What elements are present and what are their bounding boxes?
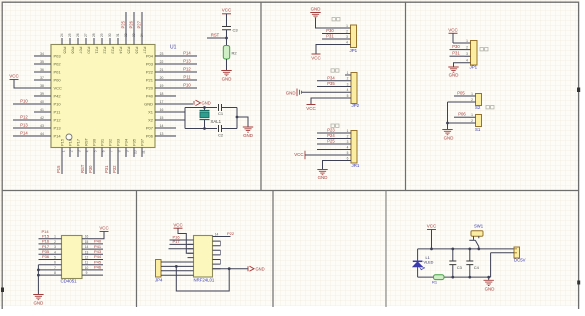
svg-text:P24: P24 [119,47,124,55]
svg-text:P14: P14 [20,131,28,136]
svg-text:L1: L1 [426,256,430,260]
svg-text:C1: C1 [218,111,224,116]
svg-text:JP1: JP1 [470,65,478,70]
svg-text:17: 17 [160,100,164,104]
svg-text:15: 15 [160,116,164,120]
svg-text:44: 44 [40,132,44,136]
svg-text:20: 20 [160,76,164,80]
svg-text:32: 32 [124,33,128,37]
svg-text:P31: P31 [452,51,460,56]
wire S2 pin2 [448,101,470,103]
ground JR1 [317,170,327,175]
power GND arrow right of U1 [194,100,201,105]
border tick left [1,288,4,293]
svg-text:P22: P22 [103,47,108,55]
svg-text:34: 34 [40,52,44,56]
wire net P13 left [13,127,34,129]
svg-text:2: 2 [347,77,349,81]
wire JP2 pin5 to VCC [311,98,345,105]
wire CD4051 gnd vertical [37,265,39,295]
wire JP1 pin4 to VCC [316,45,345,55]
svg-text:41: 41 [40,108,44,112]
ground crystal [243,127,253,132]
svg-text:VCC: VCC [99,226,108,231]
svg-text:P33: P33 [116,138,121,146]
wire R2 to ground [226,59,228,71]
svg-text:GND: GND [449,73,459,78]
svg-text:P11: P11 [54,110,62,115]
svg-text:P22: P22 [146,70,154,75]
wire net P14 left [13,135,34,137]
svg-text:P12: P12 [183,67,191,72]
svg-text:11: 11 [85,261,89,265]
svg-text:GND: GND [444,136,454,141]
junction crystal top [203,106,206,109]
divider bottom vertical 2 [272,191,274,308]
wire GND to JP2 pin4 [302,91,345,93]
svg-text:S1: S1 [475,127,481,132]
svg-text:P32: P32 [108,138,113,146]
svg-text:6: 6 [54,261,56,265]
wire net P25 JR1 [317,143,345,145]
connector S1 button [476,115,482,127]
wire after C1 [222,107,238,109]
svg-text:P30: P30 [326,28,334,33]
svg-text:35: 35 [40,60,44,64]
wire net P31 JP3 [450,55,465,57]
svg-text:37: 37 [40,76,44,80]
junction crystal bottom [203,127,206,130]
JP3 title text [480,48,483,51]
U1 bottom long wires [62,148,118,175]
capacitor C3 reset [222,27,231,30]
wire VCC to JP3 pin1 [452,33,454,43]
svg-text:P11: P11 [183,75,191,80]
svg-text:25: 25 [68,33,72,37]
svg-text:P40: P40 [146,94,154,99]
junction CD4051 pin8 [37,274,40,277]
svg-text:11: 11 [141,150,145,154]
wire crystal top rail [185,107,217,109]
border tick right lower [577,281,580,285]
wire X2 to crystal [176,119,185,121]
svg-text:2: 2 [471,98,473,102]
diode D1 LED [413,260,423,262]
svg-text:GND: GND [311,7,321,12]
CD4051 right pins [82,239,103,275]
svg-text:R2: R2 [232,51,238,56]
svg-text:P32: P32 [112,165,117,173]
divider top vertical 1 [260,2,262,190]
op-amp U3 NRF24L01 body [194,236,213,278]
svg-text:GND: GND [34,301,44,306]
svg-text:NRF24L01: NRF24L01 [194,278,215,283]
wire led branch bottom [417,267,419,278]
svg-text:2: 2 [69,150,73,152]
wire net P06 [454,116,470,118]
resistor R2 [223,46,229,60]
wire C3 to R2 [226,30,228,46]
wire net P12 right [176,71,197,73]
svg-text:2: 2 [466,46,468,50]
wire jack pin2 [491,253,514,277]
svg-text:2: 2 [471,119,473,123]
wire net P13 right [176,63,197,65]
U1 top pins [62,38,118,45]
CD4051 left pins [39,239,62,275]
svg-text:P35: P35 [132,138,137,146]
svg-text:3: 3 [347,82,349,86]
wire net P30 JP1 [322,33,345,35]
wire net P05 [454,95,470,97]
svg-text:33: 33 [132,33,136,37]
connector JP3 [471,41,478,66]
svg-text:P42: P42 [54,94,62,99]
svg-text:P14: P14 [183,51,191,56]
power VCC JP2 [307,104,316,106]
svg-text:C4: C4 [474,265,480,270]
wire GND pin16 [176,103,193,105]
svg-text:5: 5 [347,151,349,155]
svg-text:GND: GND [286,90,296,95]
wire net P12 left [13,119,34,121]
JR1 pins [345,133,351,161]
JP1 title text [332,18,335,21]
svg-text:VCC: VCC [9,74,19,79]
NRF right pins [213,241,221,269]
svg-text:P30: P30 [452,44,460,49]
svg-text:4: 4 [54,250,56,254]
svg-text:DC5V: DC5V [514,257,526,262]
svg-text:GND: GND [222,77,232,82]
svg-text:1: 1 [471,92,473,96]
wire VCC to C3 [226,14,228,27]
connector S2 button [476,94,482,106]
svg-text:P05: P05 [457,90,465,95]
svg-text:P20: P20 [87,47,92,55]
svg-text:C3: C3 [457,265,463,270]
svg-text:43: 43 [40,124,44,128]
svg-text:10: 10 [133,150,137,154]
wire net P23 JR1 [317,132,345,134]
wire net P10 right [176,87,197,89]
svg-text:2: 2 [347,134,349,138]
svg-text:JP1: JP1 [350,48,358,53]
svg-text:P25: P25 [121,20,126,28]
svg-text:P27: P27 [137,20,142,28]
svg-text:P12: P12 [20,115,28,120]
junction buttons gnd [446,122,449,125]
svg-text:JP4: JP4 [155,278,163,283]
wire gnd to JP1 pin1 [316,18,345,28]
junction RST [225,37,228,40]
divider bottom vertical 3 [385,191,387,308]
wire bottom rail [418,276,491,278]
svg-text:P25: P25 [327,139,335,144]
svg-text:40: 40 [40,100,44,104]
svg-text:3: 3 [54,245,56,249]
svg-text:P16: P16 [68,138,73,146]
S2 pins [470,96,476,102]
wire S1 pin2 [448,122,470,124]
NRF right tie bars [220,241,222,264]
svg-text:P03: P03 [54,54,62,59]
svg-text:R1: R1 [432,280,438,285]
svg-text:SW1: SW1 [474,223,484,228]
svg-text:16: 16 [85,235,89,239]
svg-text:P22: P22 [227,231,235,236]
svg-text:14: 14 [85,245,89,249]
capacitor C4 power [469,249,471,277]
wire net P34 JP2 [317,80,345,82]
svg-text:C2: C2 [218,133,224,138]
svg-text:GND: GND [202,101,211,106]
svg-text:1: 1 [61,150,65,152]
wire RST stub [207,37,227,39]
divider top vertical 2 [405,2,407,190]
svg-text:P26: P26 [135,47,140,55]
svg-text:13: 13 [160,132,164,136]
svg-text:P15: P15 [60,138,65,146]
svg-text:P31: P31 [100,138,105,146]
wire VCC to pin 38 [14,80,34,89]
wire net P31 JP1 [322,38,345,40]
connector JP1 [351,25,357,48]
svg-text:VCC: VCC [173,222,182,227]
svg-text:VCC: VCC [448,27,458,32]
svg-text:P17: P17 [172,239,180,244]
svg-text:P07: P07 [79,47,84,55]
wire VCC drop [431,230,433,249]
wire net P14 right [176,55,197,57]
wire bottom loop [176,266,229,291]
JP2 pins [345,75,351,98]
svg-text:VCC: VCC [427,224,437,229]
JP1 pins [345,28,351,45]
svg-text:14: 14 [160,124,164,128]
connector JR1 [351,131,357,164]
svg-text:36: 36 [40,68,44,72]
svg-text:P37: P37 [140,138,145,146]
svg-text:8: 8 [54,271,56,275]
svg-text:30: 30 [108,33,112,37]
junction JP4 wire [175,265,178,268]
svg-text:CD4051: CD4051 [61,279,78,284]
wire net P24 JR1 [317,138,345,140]
svg-text:P05: P05 [63,47,68,55]
svg-text:5: 5 [347,94,349,98]
wire net P35 JP2 [317,86,345,88]
svg-text:P10: P10 [54,102,62,107]
svg-text:4: 4 [346,40,348,44]
capacitor C3 power [452,249,454,277]
svg-text:P30: P30 [88,165,93,173]
svg-text:1: 1 [347,71,349,75]
junction crystal gnd tap [236,116,239,119]
svg-text:GND: GND [243,133,253,138]
wire JP3 pin1 [453,42,465,44]
power GND arrow NRF [248,266,254,271]
svg-text:P14: P14 [41,229,49,234]
svg-text:34: 34 [140,33,144,37]
U1 left pins [34,56,51,136]
ground power section [488,277,490,280]
svg-text:1: 1 [346,24,348,28]
svg-text:P12: P12 [54,118,62,123]
op-amp U2 CD4051 body [62,236,83,279]
svg-text:31: 31 [116,33,120,37]
svg-text:P17: P17 [76,138,81,146]
svg-text:5: 5 [93,150,97,152]
svg-text:21: 21 [160,68,164,72]
wire net P11 right [176,79,197,81]
svg-text:P31: P31 [104,165,109,173]
svg-text:VLED: VLED [424,261,434,265]
svg-text:3: 3 [347,140,349,144]
svg-text:P34: P34 [327,75,335,80]
svg-text:P35: P35 [327,81,335,86]
svg-text:C3: C3 [233,28,239,33]
ground buttons [442,130,452,135]
connector JP4 [156,260,162,278]
U1 bottom pins [70,148,142,158]
svg-text:22: 22 [160,60,164,64]
svg-text:6: 6 [347,156,349,160]
wire JR1 pin4 [317,149,345,151]
svg-text:23: 23 [160,52,164,56]
svg-text:P04: P04 [146,54,154,59]
svg-text:26: 26 [76,33,80,37]
NRF24L01 left pins [188,240,194,258]
wire NRF pin8 to GND [213,268,249,270]
wire crystal to ground [237,117,248,127]
power VCC JP1 [312,53,321,55]
svg-text:19: 19 [160,84,164,88]
svg-text:GND: GND [256,266,265,271]
svg-text:RST: RST [211,32,220,37]
wire top rail [418,248,514,250]
junction CD4051 pin7 [37,269,40,272]
JP3 pins [465,43,471,63]
svg-text:P07: P07 [146,126,154,131]
wire VCC to NRF [178,228,194,253]
crystal XAL1 [204,108,206,129]
svg-text:P13: P13 [183,59,191,64]
U1 pin-1 circle [66,134,72,140]
svg-text:P06: P06 [146,134,154,139]
ground reset [221,71,231,76]
svg-text:P21: P21 [146,78,154,83]
svg-text:U1: U1 [170,44,177,50]
junction rail dots [430,248,433,251]
svg-text:P24: P24 [327,133,335,138]
svg-text:16: 16 [160,108,164,112]
svg-text:P15: P15 [56,165,61,173]
svg-text:P06: P06 [458,112,466,117]
capacitor C2 [219,125,222,132]
svg-text:P25: P25 [127,47,132,55]
svg-text:10: 10 [85,266,89,270]
op-amp U1 microcontroller body [51,45,155,148]
U1 top long wires P25 P26 P27 [126,12,142,45]
svg-text:4: 4 [347,88,349,92]
svg-text:GND: GND [485,287,495,292]
svg-text:JR1: JR1 [352,163,360,168]
svg-text:6: 6 [101,150,105,152]
svg-text:P36: P36 [42,254,50,259]
svg-text:P23: P23 [327,128,335,133]
svg-text:3: 3 [346,35,348,39]
svg-text:5: 5 [54,256,56,260]
svg-text:VCC: VCC [294,152,303,157]
wire crystal bottom rail [185,128,217,130]
svg-text:P10: P10 [20,99,28,104]
svg-text:9: 9 [86,271,88,275]
svg-text:XAL1: XAL1 [211,119,222,124]
wire VCC to pin16 [103,232,104,239]
svg-text:4: 4 [466,59,468,63]
svg-text:15: 15 [85,240,89,244]
capacitor C1 [219,104,222,111]
svg-text:P46: P46 [94,265,102,270]
svg-text:VCC: VCC [306,106,316,111]
svg-text:1: 1 [471,113,473,117]
svg-text:P21: P21 [95,47,100,55]
svg-text:P00: P00 [54,78,62,83]
svg-text:9: 9 [125,150,129,152]
svg-text:P26: P26 [129,20,134,28]
svg-text:P30: P30 [92,138,97,146]
svg-text:3: 3 [77,150,81,152]
wire led branch top [417,249,419,262]
svg-text:P20: P20 [146,86,154,91]
svg-text:42: 42 [40,116,44,120]
svg-text:28: 28 [92,33,96,37]
wire crystal left vertical [184,108,186,129]
wire X1 to crystal [176,111,185,113]
svg-text:12: 12 [85,256,89,260]
wire net P22 right [213,236,231,238]
JP2 title text [331,69,334,72]
wire crystal right vertical [236,108,238,129]
svg-text:38: 38 [40,84,44,88]
svg-text:GND: GND [144,102,153,107]
svg-text:4: 4 [347,145,349,149]
divider bottom vertical 1 [136,191,138,308]
svg-text:P34: P34 [124,138,129,146]
wire JR1 pin6 to GND [323,161,346,170]
svg-text:3: 3 [466,52,468,56]
wire net P30 JP3 [450,49,465,51]
border tick right [577,88,580,93]
svg-text:8: 8 [117,150,121,152]
svg-text:VCC: VCC [54,86,63,91]
svg-text:P02: P02 [54,62,62,67]
svg-text:RST: RST [84,137,89,146]
svg-text:1: 1 [347,129,349,133]
connector JP2 [351,73,357,104]
svg-text:P31: P31 [326,34,334,39]
svg-text:P06: P06 [71,47,76,55]
U1 right pins [155,56,176,136]
svg-text:14: 14 [215,232,219,236]
wire VCC to JR1 pin5 [305,154,345,156]
ground CD4051 [33,295,43,300]
svg-text:P13: P13 [20,123,28,128]
svg-text:P14: P14 [54,134,62,139]
svg-text:2: 2 [54,240,56,244]
wire net rows left [169,240,194,249]
